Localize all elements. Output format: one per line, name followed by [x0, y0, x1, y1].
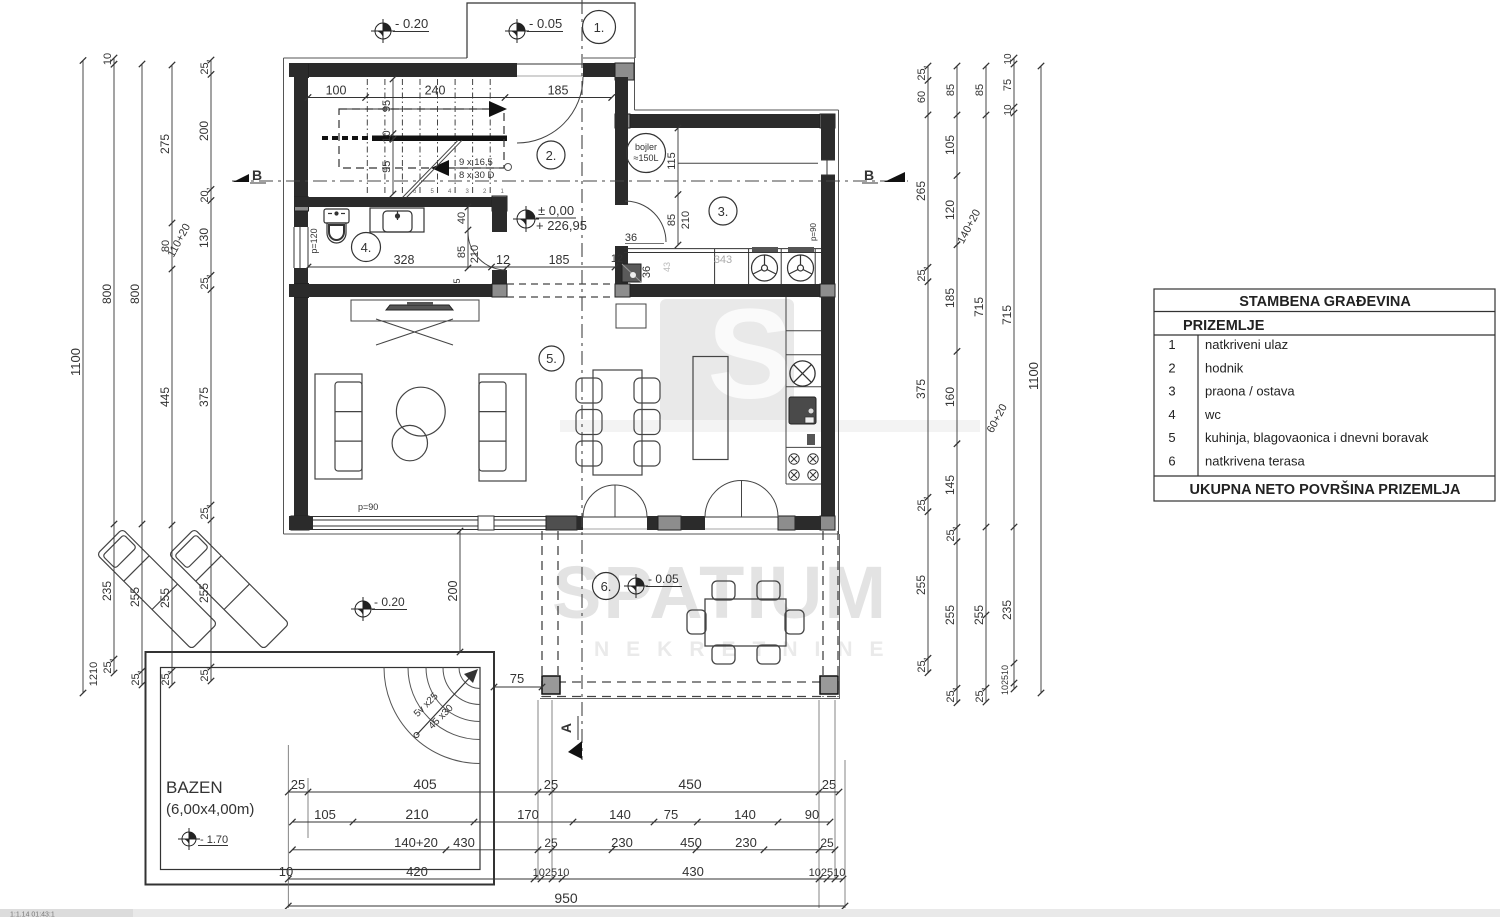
svg-text:2: 2: [1168, 360, 1175, 375]
left dim col2: [113, 58, 115, 673]
svg-text:25,: 25,: [916, 657, 928, 672]
svg-text:B: B: [864, 167, 874, 183]
dining table: [593, 370, 642, 475]
bottom dim row3: [292, 849, 835, 851]
stair mini dim 95 10 95: [392, 79, 394, 194]
pool stairs arcs: [384, 668, 480, 764]
staircase flight divider bar: [372, 136, 507, 142]
svg-text:75: 75: [664, 807, 678, 822]
bottom dim row2: [292, 821, 830, 823]
bottom grey scan bar: [0, 909, 1500, 917]
wc door arc: [468, 232, 506, 270]
door1 threshold: [583, 516, 647, 518]
svg-text:10: 10: [1003, 53, 1014, 65]
svg-text:4.: 4.: [361, 240, 372, 255]
svg-text:375: 375: [914, 379, 928, 399]
svg-text:430: 430: [453, 835, 475, 850]
svg-text:715: 715: [972, 297, 986, 317]
watermark SPATIUM logo square: [560, 283, 980, 432]
svg-text:wc: wc: [1204, 407, 1221, 422]
terrace post left: [542, 676, 560, 694]
kitchen faucet mark: [807, 434, 815, 445]
svg-text:120: 120: [943, 200, 957, 220]
svg-text:UKUPNA NETO POVRŠINA PRIZEMLJA: UKUPNA NETO POVRŠINA PRIZEMLJA: [1190, 480, 1461, 498]
right dim col4: [1013, 58, 1015, 689]
svg-text:715: 715: [1000, 305, 1014, 325]
svg-text:20,: 20,: [199, 187, 211, 202]
svg-text:B: B: [252, 167, 262, 183]
svg-text:25,: 25,: [199, 274, 211, 289]
pilaster left wall at living top: [295, 284, 309, 298]
terrace dashed outline: [542, 531, 838, 697]
pilaster top-left corner: [295, 65, 309, 78]
svg-text:25: 25: [544, 777, 558, 792]
room3 door arc: [625, 201, 666, 242]
svg-text:200: 200: [197, 121, 211, 141]
svg-text:405: 405: [413, 776, 437, 792]
svg-text:800: 800: [100, 284, 114, 304]
room circle 4: [352, 233, 381, 262]
svg-text:145: 145: [943, 475, 957, 495]
left dim col4: [171, 65, 173, 685]
svg-text:10: 10: [279, 864, 293, 879]
wc right wall: [492, 197, 507, 232]
boiler circle: [627, 134, 666, 173]
svg-text:420: 420: [406, 864, 428, 879]
laundry counter: [624, 249, 821, 284]
terrace chairs: [687, 581, 804, 664]
svg-text:235: 235: [100, 581, 114, 601]
svg-text:115: 115: [666, 152, 678, 170]
svg-text:S: S: [707, 283, 792, 426]
level marker 0,00: [513, 206, 539, 232]
left dim col5: [210, 60, 212, 681]
svg-text:25: 25: [544, 836, 558, 850]
svg-text:1100: 1100: [68, 348, 83, 376]
svg-text:265: 265: [914, 181, 928, 201]
round coffee tables: [396, 387, 445, 436]
svg-text:≈150L: ≈150L: [634, 153, 659, 163]
bottom window band: [313, 517, 546, 530]
svg-text:95: 95: [381, 100, 393, 112]
room circle 2: [537, 141, 565, 169]
living top wall left part: [289, 284, 507, 297]
svg-text:25,: 25,: [945, 687, 957, 702]
svg-text:235: 235: [1000, 600, 1014, 620]
svg-text:40: 40: [456, 212, 468, 224]
svg-text:STAMBENA GRAĐEVINA: STAMBENA GRAĐEVINA: [1239, 294, 1411, 310]
pilaster top wall right end: [615, 63, 634, 80]
staircase risers: [367, 79, 490, 196]
svg-text:1: 1: [1168, 337, 1175, 352]
svg-text:12: 12: [496, 253, 510, 267]
svg-text:210: 210: [680, 211, 692, 229]
pool outer wall: [146, 652, 495, 885]
svg-text:60: 60: [916, 91, 928, 103]
svg-text:255: 255: [158, 588, 172, 608]
svg-text:170: 170: [517, 807, 539, 822]
entrance door arc: [517, 77, 583, 143]
svg-text:+ 226,95: + 226,95: [536, 218, 587, 233]
stair diagonal break line: [403, 140, 458, 197]
terrace post right: [820, 676, 838, 694]
svg-text:4: 4: [1168, 407, 1175, 422]
svg-text:- 0.20: - 0.20: [374, 595, 405, 609]
svg-text:90: 90: [805, 807, 819, 822]
right dim col2: [956, 66, 958, 703]
pilaster left wall at stair wall: [295, 197, 309, 211]
svg-text:BAZEN: BAZEN: [166, 778, 223, 797]
svg-text:1:1.14 01:43:1: 1:1.14 01:43:1: [10, 912, 55, 917]
svg-text:328: 328: [394, 253, 415, 267]
right dim col3: [985, 66, 987, 702]
pool stairs diagonal arrow: [417, 673, 475, 735]
svg-text:102510: 102510: [809, 867, 846, 879]
room3 top wall: [615, 114, 835, 128]
svg-text:105: 105: [943, 135, 957, 155]
svg-text:36: 36: [641, 266, 653, 278]
left wall: [294, 63, 308, 227]
svg-text:85: 85: [974, 84, 986, 96]
svg-text:25,: 25,: [916, 65, 928, 80]
svg-text:- 1.70: - 1.70: [200, 834, 228, 846]
sofa left: [315, 374, 362, 479]
sofa right: [479, 374, 526, 481]
section marker B left: [233, 174, 249, 182]
svg-text:6: 6: [1168, 454, 1175, 469]
hob 4 burners: [789, 454, 818, 480]
staircase dashed landing outline: [339, 109, 504, 168]
stairs-wc wall: [294, 197, 507, 207]
svg-text:950: 950: [554, 890, 578, 906]
svg-text:160: 160: [943, 387, 957, 407]
svg-text:105: 105: [314, 807, 336, 822]
svg-text:1100: 1100: [1026, 362, 1041, 390]
tv cabinet: [351, 300, 479, 321]
room3 right wall: [821, 114, 835, 160]
corridor-room3 left wall: [615, 77, 628, 205]
svg-text:185: 185: [549, 253, 570, 267]
wc window in left wall: [294, 227, 308, 268]
svg-text:25,: 25,: [945, 526, 957, 541]
room circle 5: [539, 346, 564, 371]
svg-text:± 0,00: ± 0,00: [538, 203, 574, 218]
svg-text:230: 230: [735, 835, 757, 850]
svg-text:210: 210: [405, 806, 429, 822]
svg-text:p=90: p=90: [358, 502, 378, 512]
wc toilet: [324, 209, 349, 243]
left dim col1 1100: [82, 61, 84, 694]
washing machine 1: [752, 247, 778, 252]
svg-text:255: 255: [914, 575, 928, 595]
entrance threshold lines: [517, 63, 583, 65]
level marker -0.20 top: [371, 19, 395, 43]
dim 75 pool-terrace: [494, 686, 542, 688]
svg-text:140: 140: [609, 807, 631, 822]
svg-text:240: 240: [425, 84, 446, 98]
pantry column: [616, 304, 646, 328]
svg-text:25,: 25,: [916, 496, 928, 511]
svg-text:102510: 102510: [1000, 665, 1010, 695]
svg-text:1210: 1210: [88, 662, 100, 686]
kitchen island: [693, 357, 728, 460]
svg-text:445: 445: [158, 387, 172, 407]
eaves outline: [284, 58, 839, 534]
svg-text:10: 10: [1003, 104, 1014, 116]
svg-text:185: 185: [548, 84, 569, 98]
svg-text:- 0.05: - 0.05: [529, 16, 562, 31]
svg-text:12: 12: [611, 253, 623, 265]
svg-text:natkrivena terasa: natkrivena terasa: [1205, 454, 1305, 469]
pool inner wall: [161, 668, 481, 870]
svg-text:43: 43: [662, 262, 672, 272]
svg-text:130: 130: [197, 228, 211, 248]
svg-text:230: 230: [611, 835, 633, 850]
level marker -0.05 terrace: [624, 574, 648, 598]
svg-text:25,: 25,: [916, 266, 928, 281]
svg-text:A: A: [558, 723, 574, 733]
bottom dim row1: [288, 791, 839, 793]
svg-text:PRIZEMLJE: PRIZEMLJE: [1183, 318, 1265, 334]
corridor bottom dim 328 12 185: [308, 266, 615, 268]
svg-text:10: 10: [102, 53, 114, 65]
svg-text:85: 85: [456, 246, 468, 258]
bottom dim row4: [288, 878, 843, 880]
wc sink: [370, 208, 424, 232]
dashed wall across corridor opening: [507, 284, 615, 297]
living right wall: [821, 297, 835, 530]
corridor mini dims 40 85 210 5: [467, 207, 469, 268]
svg-text:25,: 25,: [974, 687, 986, 702]
room circle 1: [583, 11, 616, 44]
svg-text:- 0.05: - 0.05: [648, 572, 679, 586]
right dim col1: [927, 66, 929, 673]
svg-text:6.: 6.: [601, 579, 612, 594]
svg-text:85: 85: [666, 214, 678, 226]
section line A-A vertical dash-dot: [581, 0, 583, 760]
svg-text:25,: 25,: [102, 658, 114, 673]
stair up arrow top flight: [339, 108, 490, 110]
svg-text:140+20: 140+20: [394, 835, 438, 850]
stair lower flight arrow: [431, 160, 449, 176]
svg-text:210: 210: [469, 245, 481, 263]
svg-text:bojler: bojler: [635, 142, 657, 152]
top wall of house: [289, 63, 517, 77]
pilaster left wall bottom corner: [291, 516, 309, 530]
terrace thin border: [540, 698, 840, 700]
svg-text:2.: 2.: [546, 148, 557, 163]
svg-text:275: 275: [158, 134, 172, 154]
svg-text:(6,00x4,00m): (6,00x4,00m): [166, 801, 254, 818]
right dim col5 total 1100: [1040, 66, 1042, 693]
svg-text:85: 85: [945, 84, 957, 96]
dining chairs: [576, 378, 660, 466]
svg-text:25: 25: [822, 777, 836, 792]
svg-text:255: 255: [943, 605, 957, 625]
svg-text:p=90: p=90: [809, 222, 818, 241]
upper interior dim 100 240 185: [308, 97, 612, 99]
svg-text:25,: 25,: [199, 504, 211, 519]
svg-text:375: 375: [197, 387, 211, 407]
level marker -0.05 entrance: [505, 19, 529, 43]
door1 french arcs: [583, 481, 778, 518]
svg-text:praona / ostava: praona / ostava: [1205, 384, 1295, 399]
svg-text:36: 36: [625, 232, 637, 244]
svg-text:25: 25: [291, 777, 305, 792]
kitchen sink dark: [789, 397, 816, 424]
shower drain dark square: [622, 264, 641, 282]
section line B-B horizontal dash-dot: [232, 180, 908, 182]
svg-text:255: 255: [197, 583, 211, 603]
svg-text:hodnik: hodnik: [1205, 360, 1244, 375]
svg-text:3.: 3.: [718, 204, 729, 219]
svg-text:185: 185: [943, 288, 957, 308]
svg-text:25,: 25,: [199, 666, 211, 681]
svg-text:9 x 16,5: 9 x 16,5: [459, 157, 493, 168]
sun lounger 1: [97, 529, 217, 649]
level marker -0.20 yard: [351, 597, 375, 621]
door2 threshold: [705, 516, 778, 518]
svg-text:102510: 102510: [533, 867, 570, 879]
svg-text:NEKRETNINE: NEKRETNINE: [594, 638, 901, 661]
legend rows: [1168, 337, 1428, 469]
svg-text:5: 5: [1168, 430, 1175, 445]
svg-text:450: 450: [680, 835, 702, 850]
svg-text:25,: 25,: [160, 670, 172, 685]
dark block in bottom wall: [546, 516, 577, 530]
left dim col3: [141, 64, 143, 685]
svg-text:10: 10: [381, 130, 393, 142]
entrance canopy room 1: [467, 3, 635, 58]
svg-text:200: 200: [446, 581, 460, 602]
svg-text:1.: 1.: [594, 20, 605, 35]
room3 bottom wall: [615, 284, 835, 297]
svg-text:800: 800: [128, 284, 142, 304]
bottom extension lines: [288, 700, 845, 908]
svg-text:255: 255: [972, 605, 986, 625]
svg-text:- 0.20: - 0.20: [395, 16, 428, 31]
tv stand X legs: [376, 319, 453, 345]
svg-text:5: 5: [452, 278, 462, 283]
living bottom wall: [289, 516, 313, 530]
sun lounger 2: [169, 529, 289, 649]
legend table: [1154, 289, 1495, 501]
svg-text:95: 95: [381, 161, 393, 173]
svg-text:25,: 25,: [199, 59, 211, 74]
room3 dim 115 85: [677, 128, 679, 245]
svg-text:3: 3: [1168, 384, 1175, 399]
svg-text:100: 100: [326, 84, 347, 98]
svg-text:p=120: p=120: [309, 228, 319, 253]
bottom dim row5 950: [288, 905, 845, 907]
room circle 6: [593, 573, 620, 600]
svg-text:25: 25: [820, 836, 834, 850]
tv set: [386, 305, 453, 310]
grey block between doors: [658, 516, 681, 530]
svg-text:kuhinja, blagovaonica i dnevni: kuhinja, blagovaonica i dnevni boravak: [1205, 430, 1429, 445]
window sill box: [478, 516, 494, 530]
svg-text:5.: 5.: [546, 351, 557, 366]
washing machine 2: [788, 247, 814, 252]
dim 200 house-to-pool: [459, 531, 461, 652]
kitchen counter right: [786, 297, 821, 484]
svg-text:450: 450: [678, 776, 702, 792]
svg-text:25,: 25,: [130, 670, 142, 685]
svg-text:430: 430: [682, 864, 704, 879]
kitchen circle-X fixture: [790, 361, 815, 386]
svg-text:natkriveni ulaz: natkriveni ulaz: [1205, 337, 1288, 352]
svg-text:255: 255: [128, 587, 142, 607]
terrace table: [705, 599, 786, 646]
room circle 3: [709, 197, 737, 225]
svg-text:8 x 30 D: 8 x 30 D: [459, 170, 495, 181]
stair annotation 9x16,5 8x30: [505, 164, 512, 171]
svg-text:140: 140: [734, 807, 756, 822]
svg-text:75: 75: [510, 671, 524, 686]
room3 shelf line: [678, 162, 818, 164]
svg-text:343: 343: [714, 254, 732, 266]
svg-text:75: 75: [1002, 79, 1014, 91]
